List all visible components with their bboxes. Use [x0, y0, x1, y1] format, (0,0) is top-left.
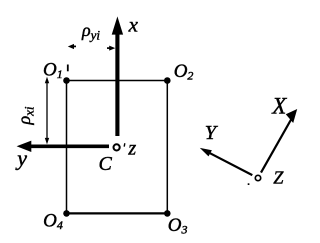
svg-text:C: C	[99, 153, 113, 175]
svg-text:X: X	[271, 93, 287, 118]
svg-text:z: z	[127, 138, 136, 160]
svg-text:Z: Z	[273, 167, 284, 187]
svg-text:y: y	[15, 146, 27, 171]
svg-text:x: x	[128, 13, 139, 37]
